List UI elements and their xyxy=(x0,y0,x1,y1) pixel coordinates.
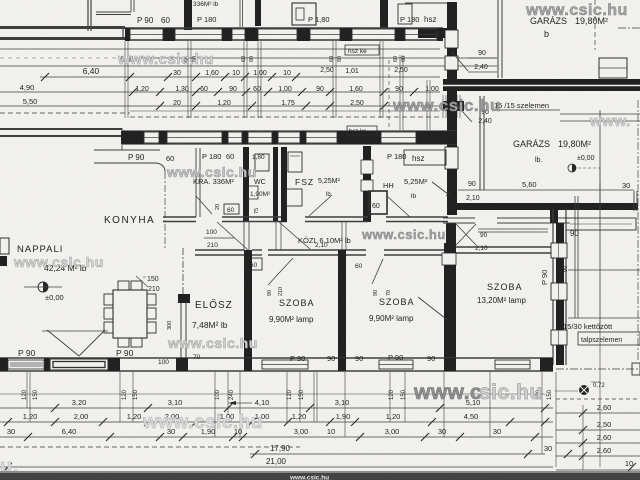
szoba3 right wall xyxy=(552,209,554,365)
garage step lines xyxy=(599,182,601,203)
hsz ke label box top xyxy=(345,45,379,55)
house right thick wall xyxy=(447,2,457,215)
corridor bottom wall xyxy=(195,249,244,251)
szoba3 right wall windows xyxy=(551,243,567,258)
corridor top wall xyxy=(163,216,196,218)
bottom wall window big xyxy=(50,359,108,370)
upper floor wall pier 1 xyxy=(184,0,192,30)
chairs bottom xyxy=(118,338,129,347)
bottom dim line 17,90 row xyxy=(250,453,545,455)
row C ticks xyxy=(24,433,32,441)
chairs left xyxy=(104,294,113,305)
bottom wall window szoba1 xyxy=(262,360,308,369)
szoba1 left thick wall xyxy=(244,255,252,365)
upper room partition lines xyxy=(239,0,241,27)
garage dimension line xyxy=(458,189,634,191)
szoba3 north wall B pier xyxy=(556,254,563,264)
house right wall window 1 xyxy=(445,30,458,48)
chairs top xyxy=(118,281,129,290)
top dimension line row 2 dashed left xyxy=(0,57,140,59)
house right wall window 2 xyxy=(445,56,458,70)
top exterior wall band xyxy=(125,27,443,29)
szoba3 top wall xyxy=(456,246,553,248)
szoba3 north thin wall xyxy=(443,217,475,219)
hsz ke label box lower xyxy=(347,126,377,135)
szoba1 door swing xyxy=(268,258,293,285)
house right wall stub xyxy=(418,28,448,38)
upper garage left wall xyxy=(497,0,499,78)
wc right thick wall xyxy=(273,147,278,222)
bottom dim line row C xyxy=(0,436,553,438)
row A ticks xyxy=(51,404,59,412)
top dimension line row 7 xyxy=(130,110,440,112)
wall junction stub xyxy=(443,101,464,111)
top dimension tick marks xyxy=(41,73,49,81)
szoba2 right junction wall xyxy=(444,243,456,253)
top dimension line row 3 xyxy=(0,65,497,67)
kra room right thick wall xyxy=(243,147,249,222)
bottom dim verticals xyxy=(29,372,31,422)
top dimension line 5,50 row xyxy=(0,105,440,107)
top dimension line 6,40 row xyxy=(40,76,440,78)
upper garage dashed axis xyxy=(594,0,596,50)
garage left wall xyxy=(479,96,481,190)
chairs right xyxy=(147,294,156,305)
eloszoba left wall solid xyxy=(180,295,182,360)
east wall top pier xyxy=(550,209,558,223)
right column vertical and ticks xyxy=(582,405,584,470)
corridor wall projection lines xyxy=(243,222,245,250)
right dash-dot axis xyxy=(637,100,639,360)
upper floor left outer wall xyxy=(87,0,89,31)
fsz door swing xyxy=(309,195,332,216)
szoba3 north shelf lines xyxy=(478,228,548,230)
far right stud lines xyxy=(574,196,576,318)
upper wall top line xyxy=(405,2,447,4)
corridor corner blocks xyxy=(244,250,252,265)
upper garage window right xyxy=(599,58,627,78)
back rooms top wall windows xyxy=(144,132,159,143)
garage south thick wall xyxy=(457,203,638,210)
upper plan dashed outline verticals xyxy=(388,60,390,128)
hh closet box xyxy=(364,192,369,215)
upper garage dash-dot line xyxy=(618,27,640,29)
upper room window symbol 2 xyxy=(398,4,412,24)
bottom dashed line xyxy=(0,446,300,448)
bottom wall piers xyxy=(0,358,8,371)
szoba3 right wall piers xyxy=(556,223,564,243)
bottom wall window szoba2 xyxy=(379,360,413,369)
nappali level symbol xyxy=(38,282,48,292)
top dimension line row 1 xyxy=(0,48,440,50)
bottom wall hatched window xyxy=(8,360,44,369)
hh left thick wall xyxy=(363,146,371,222)
kra interior door swing xyxy=(196,196,212,214)
wheel symbol 0,72 xyxy=(555,390,578,392)
back rooms top wall piers xyxy=(121,131,144,144)
corridor door swing diagonals xyxy=(217,222,248,250)
garage level symbol xyxy=(568,164,576,172)
top dimension line 4,90 row xyxy=(0,91,440,93)
top wall windows xyxy=(130,29,163,40)
upper room window symbol xyxy=(292,3,316,25)
top dimension dashed line row 8 xyxy=(0,112,130,114)
upper garage bottom thick wall xyxy=(443,79,640,91)
upper floor wall pier 2 xyxy=(255,0,261,26)
konyha door band xyxy=(94,149,160,151)
east bay window xyxy=(566,218,636,230)
right dashed line xyxy=(556,398,640,400)
szoba3 entry door swing xyxy=(456,224,476,245)
east wall connector pier xyxy=(446,223,456,245)
dining table xyxy=(113,290,147,338)
far right horizontal lines xyxy=(568,269,640,271)
right side thin lines xyxy=(560,113,640,115)
upper floor wall pier 3 xyxy=(380,0,388,28)
bottom scan edge gray line xyxy=(0,471,640,473)
top band vertical axis lines xyxy=(124,41,126,118)
nappali top wall xyxy=(0,128,122,130)
house right wall window 3 xyxy=(445,147,458,169)
bottom dim line 21,00 row xyxy=(0,466,553,468)
fsz left wall bar xyxy=(281,147,287,222)
right dash-dot line xyxy=(556,368,640,370)
garage door arrow xyxy=(432,182,452,197)
bottom dim line row B xyxy=(0,421,553,423)
upper room A partition xyxy=(96,11,131,13)
bottom dim line row A xyxy=(0,407,553,409)
hh door swing xyxy=(387,196,410,217)
left edge wall window xyxy=(0,238,9,254)
nappali door swing V xyxy=(47,330,79,356)
upper floor thick wall band left xyxy=(0,26,125,29)
svg-text:www.csic.hu: www.csic.hu xyxy=(289,475,329,480)
bottom dark band xyxy=(0,473,640,480)
szoba2 door swing xyxy=(372,259,383,284)
eloszoba left wall dashed xyxy=(182,248,184,295)
szoba3 door swing xyxy=(418,297,450,322)
fsz fixture top xyxy=(288,152,302,172)
fsz fixture bottom xyxy=(286,189,302,206)
kra room left wall xyxy=(195,148,197,217)
bottom wall window szoba3 xyxy=(495,360,530,369)
row B ticks xyxy=(4,418,12,426)
szoba1 szoba2 divider wall xyxy=(338,255,346,365)
bottom band thin line xyxy=(0,393,545,395)
back rooms top wall band xyxy=(122,130,457,132)
bottom exterior wall xyxy=(0,357,553,359)
top wall piers xyxy=(125,28,130,41)
